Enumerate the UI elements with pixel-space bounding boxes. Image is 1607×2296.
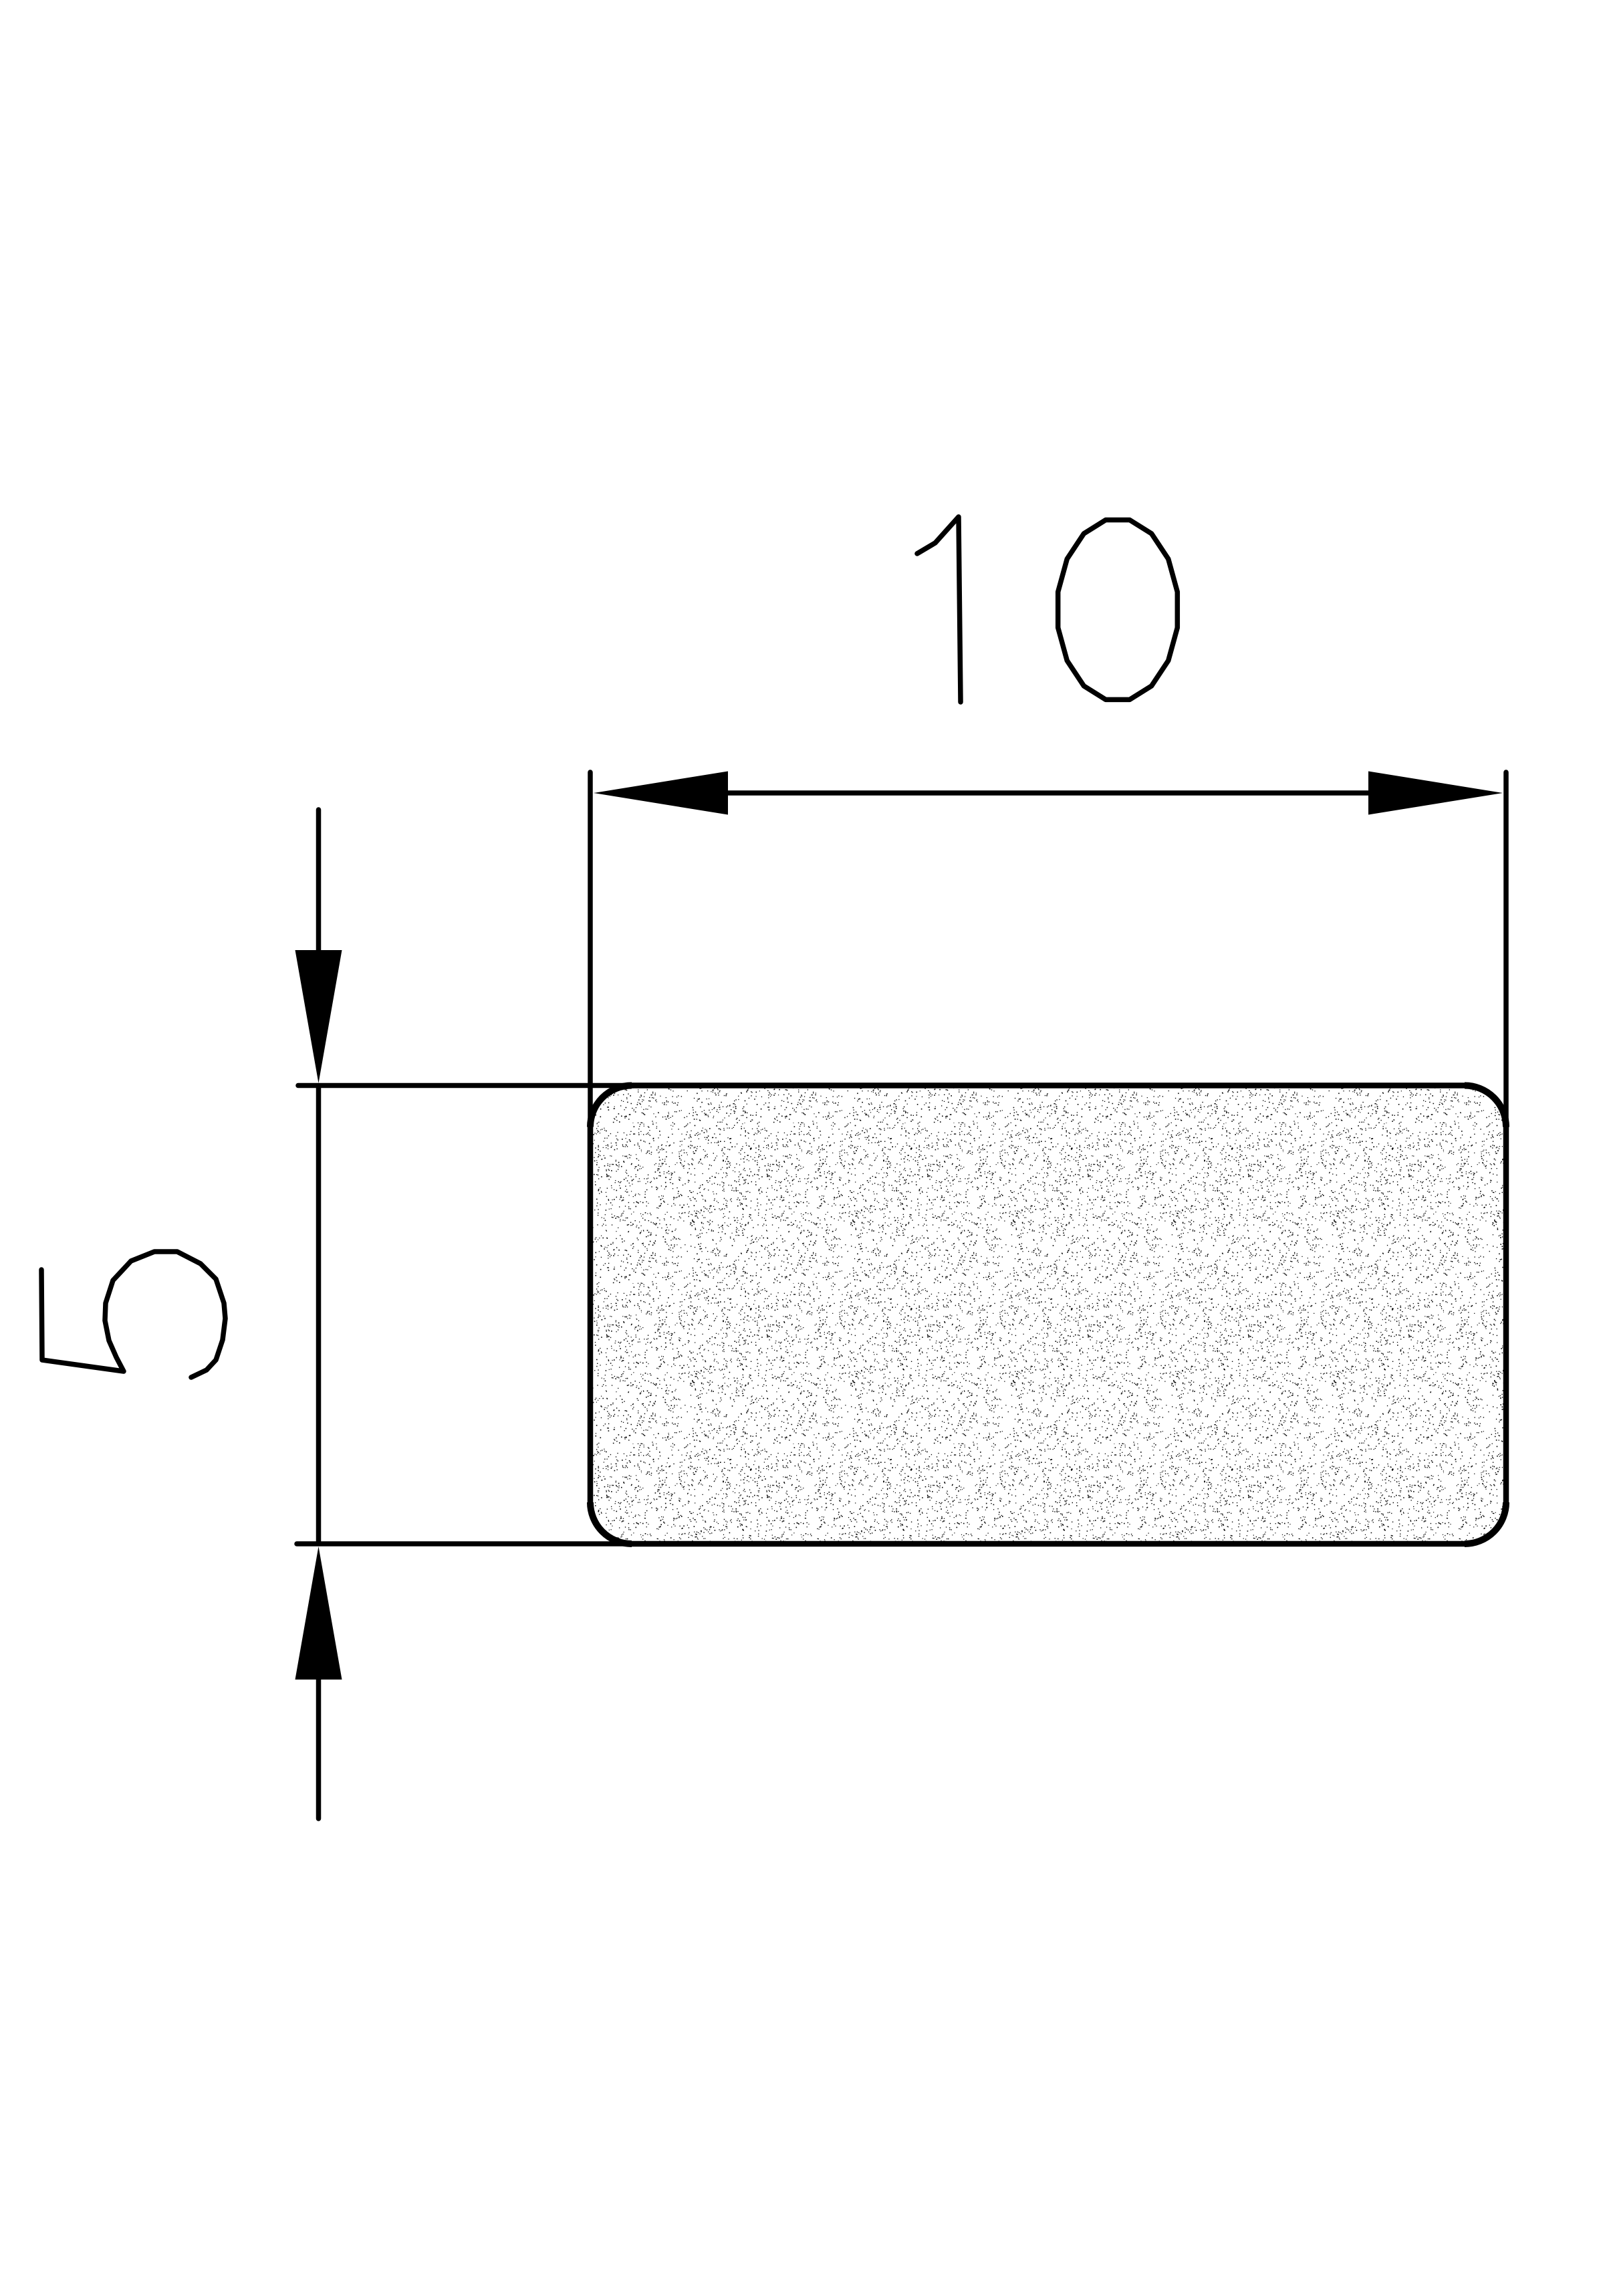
profile cross-section body (10 x 5 rounded rectangle, stippled fill) (590, 1086, 1506, 1544)
extension line left (vertical, x=883) (588, 772, 593, 1137)
extension line right (vertical, x=2253) (1503, 772, 1509, 1137)
profile corner arc bottom-left (590, 1502, 632, 1544)
dimension text digit "0" of "10" (1058, 520, 1178, 700)
dimension line "5" middle segment (316, 1086, 322, 1544)
arrowhead upper of "5" dimension (points down) (295, 950, 342, 1083)
dimension line "5" upper tail (316, 810, 322, 963)
extension line bottom (horizontal, y=2309) (297, 1541, 668, 1546)
arrowhead left of "10" dimension (594, 772, 728, 815)
dimension text digit "5" (rotated 90 deg CCW) (41, 1252, 225, 1377)
arrowhead lower of "5" dimension (points up) (295, 1546, 342, 1680)
extension line top (horizontal, y=1623.5) (298, 1083, 668, 1088)
profile corner arc bottom-right (1465, 1502, 1506, 1544)
dimension line "5" lower tail (316, 1668, 322, 1819)
profile corner arc top-right (1465, 1086, 1506, 1127)
profile corner arc top-left (590, 1086, 632, 1127)
arrowhead right of "10" dimension (1368, 772, 1503, 815)
dimension text digit "1" of "10" (917, 517, 961, 702)
dimension line "10" shaft (668, 790, 1431, 796)
